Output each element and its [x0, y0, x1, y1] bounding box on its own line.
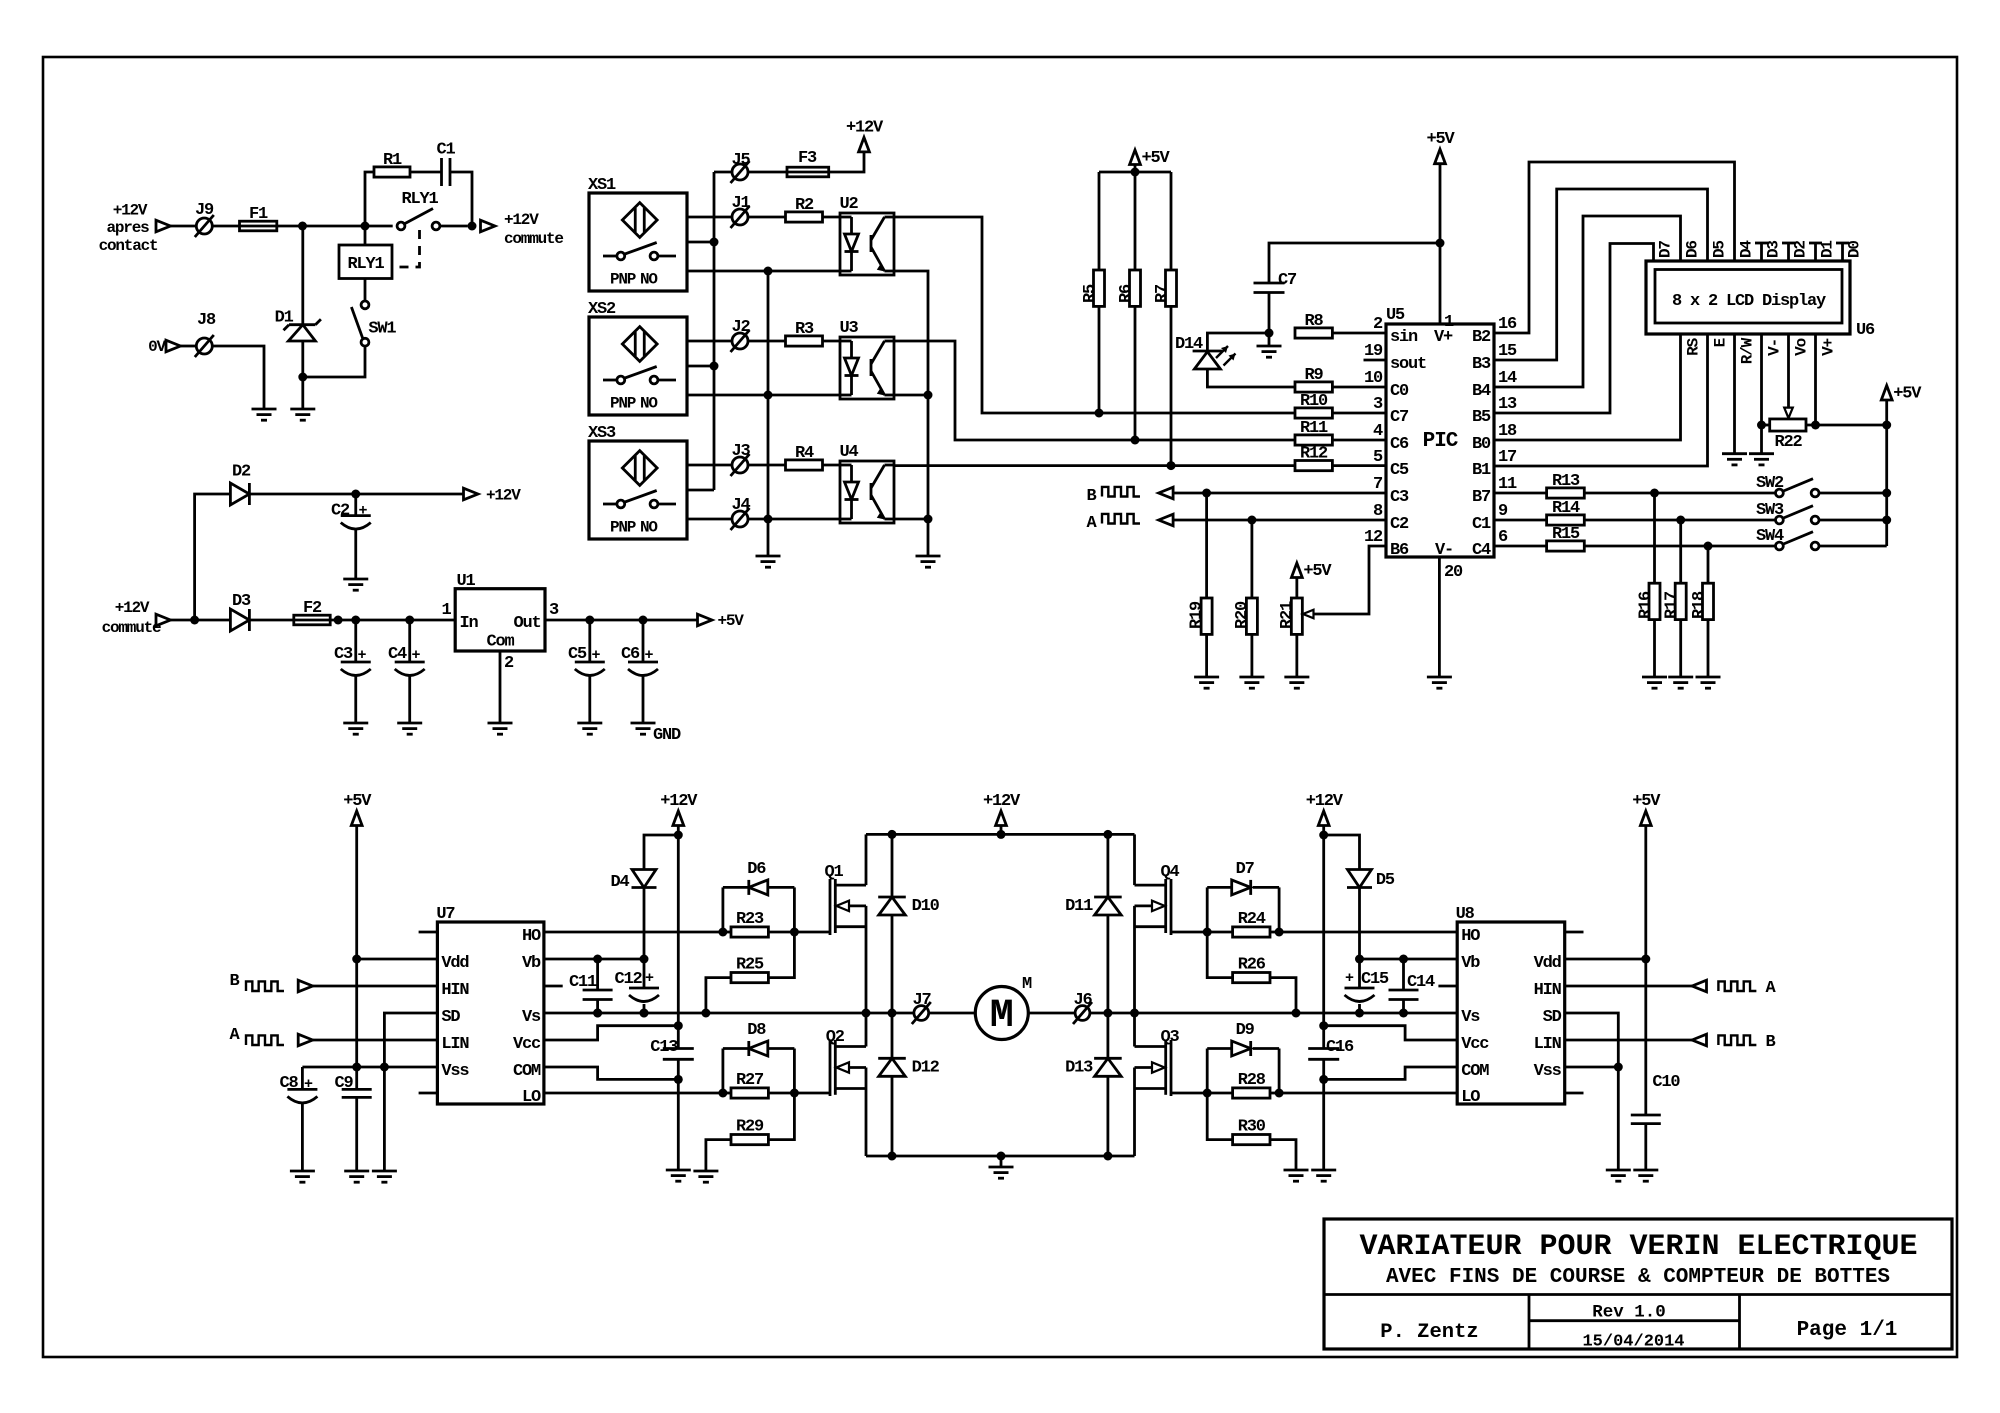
- ground: [1668, 676, 1693, 679]
- diode D12: [891, 1013, 894, 1058]
- resistor R8: [1295, 328, 1332, 338]
- U7 stub bottom-left: [419, 1092, 438, 1095]
- svg-text:C6: C6: [1390, 435, 1409, 454]
- svg-text:B0: B0: [1472, 435, 1491, 454]
- junction: [593, 1009, 602, 1018]
- net A arrow: [1692, 980, 1707, 992]
- resistor R3: [786, 336, 823, 346]
- wire coil to SW1: [364, 279, 367, 301]
- wire: [303, 347, 365, 378]
- wire U8 Vb: [1360, 958, 1458, 961]
- wire Q4 drain column: [1133, 834, 1136, 885]
- junction: [718, 1089, 727, 1098]
- svg-text:C4: C4: [1472, 541, 1491, 560]
- svg-text:M: M: [990, 994, 1014, 1039]
- svg-text:sin: sin: [1390, 328, 1418, 347]
- junction: [352, 955, 361, 964]
- junction: [764, 515, 773, 524]
- wire LCD E to PIC B1: [1494, 334, 1708, 466]
- svg-text:C14: C14: [1407, 973, 1435, 992]
- svg-text:R22: R22: [1774, 433, 1802, 452]
- junction: [674, 831, 683, 840]
- svg-text:In: In: [460, 614, 479, 633]
- wire: [823, 340, 841, 343]
- svg-text:B4: B4: [1472, 382, 1491, 401]
- resistor R11: [1295, 435, 1332, 445]
- svg-text:R6: R6: [1117, 284, 1136, 303]
- wire: [1819, 545, 1886, 548]
- junction: [1355, 1009, 1364, 1018]
- svg-text:D7: D7: [1236, 860, 1255, 879]
- fuse F1: [240, 221, 277, 231]
- diode D3: [230, 609, 249, 631]
- svg-text:V+: V+: [1820, 338, 1838, 355]
- svg-text:15: 15: [1498, 342, 1517, 361]
- junction: [640, 1009, 649, 1018]
- svg-text:C3: C3: [334, 645, 353, 664]
- wire: [748, 171, 787, 174]
- wire: [301, 341, 304, 409]
- svg-text:R27: R27: [736, 1071, 764, 1090]
- connector J8: [196, 338, 212, 354]
- svg-text:+: +: [304, 1076, 313, 1093]
- wire PIC to R15: [1494, 545, 1547, 548]
- svg-text:B: B: [229, 972, 239, 991]
- svg-text:C8: C8: [279, 1074, 298, 1093]
- svg-text:J9: J9: [195, 201, 214, 220]
- wire: [171, 619, 195, 622]
- svg-text:+5V: +5V: [718, 612, 745, 630]
- capacitor C11: [596, 959, 599, 990]
- power arrow +12V bridge: [996, 811, 1007, 826]
- svg-text:20: 20: [1444, 563, 1463, 582]
- svg-text:J5: J5: [731, 151, 750, 170]
- svg-text:19: 19: [1364, 342, 1383, 361]
- svg-text:+: +: [358, 647, 367, 664]
- U7 stub right: [544, 985, 563, 988]
- wire U7 Vss: [302, 1066, 437, 1069]
- svg-text:D3: D3: [232, 592, 251, 611]
- svg-text:R9: R9: [1304, 366, 1323, 385]
- wire U1 out: [545, 619, 698, 622]
- svg-text:Vcc: Vcc: [1461, 1035, 1489, 1054]
- wire: [440, 225, 467, 228]
- wire pullup top bar: [1099, 171, 1171, 174]
- junction: [710, 238, 719, 247]
- junction: [1650, 489, 1659, 498]
- svg-text:J4: J4: [731, 496, 750, 515]
- wire: [1332, 332, 1386, 335]
- junction: [888, 1152, 897, 1161]
- output arrow +12V commute: [481, 220, 496, 232]
- svg-text:B5: B5: [1472, 408, 1491, 427]
- svg-text:+12V: +12V: [1306, 792, 1344, 811]
- junction: [380, 1063, 389, 1072]
- capacitor C12: [643, 959, 646, 988]
- wire: [643, 887, 646, 959]
- switch SW1: [361, 301, 369, 309]
- junction: [1095, 409, 1104, 418]
- junction: [1247, 516, 1256, 525]
- svg-text:apres: apres: [106, 219, 149, 237]
- output arrow +5V: [698, 614, 713, 626]
- resistor R24: [1207, 931, 1232, 934]
- svg-text:9: 9: [1498, 502, 1508, 521]
- svg-text:R19: R19: [1188, 601, 1207, 629]
- wire: [313, 985, 438, 988]
- diode D10: [891, 834, 894, 897]
- U7 stub top-left: [419, 931, 438, 934]
- svg-text:D1: D1: [275, 309, 294, 328]
- wire sensor to J3: [687, 464, 732, 467]
- wire: [1358, 887, 1361, 959]
- wire: [748, 518, 840, 521]
- diode D4: [644, 835, 678, 870]
- svg-text:commute: commute: [504, 230, 563, 248]
- junction: [1882, 516, 1891, 525]
- svg-text:B2: B2: [1472, 328, 1491, 347]
- svg-text:D11: D11: [1065, 897, 1093, 916]
- wire LCD V+ to R22: [1814, 334, 1817, 425]
- svg-text:U2: U2: [840, 195, 859, 214]
- resistor R5: [1098, 172, 1101, 270]
- svg-text:F3: F3: [798, 149, 817, 168]
- svg-text:18: 18: [1498, 422, 1517, 441]
- resistor R15: [1547, 541, 1585, 551]
- ground: [290, 1170, 315, 1173]
- svg-text:8 x 2 LCD Display: 8 x 2 LCD Display: [1672, 292, 1826, 311]
- R21 wiper from PIC B6: [1313, 546, 1386, 614]
- wire PIC B4 to LCD D6: [1494, 216, 1681, 387]
- wire: [1332, 412, 1386, 415]
- diode D13: [1107, 1013, 1110, 1058]
- resistor R13: [1547, 488, 1585, 498]
- wire to U8 LO: [1279, 1092, 1457, 1095]
- svg-text:C1: C1: [1472, 515, 1491, 534]
- wire: [1584, 519, 1775, 522]
- svg-text:COM: COM: [513, 1062, 541, 1081]
- junction: [1203, 928, 1212, 937]
- svg-text:R/W: R/W: [1739, 337, 1757, 364]
- wire Q3 gate: [1171, 1092, 1207, 1095]
- svg-text:B: B: [1765, 1033, 1775, 1052]
- regulator U1: [455, 589, 545, 651]
- svg-text:PNP: PNP: [610, 519, 636, 537]
- svg-text:16: 16: [1498, 315, 1517, 334]
- svg-text:PNP: PNP: [610, 395, 636, 413]
- svg-text:R15: R15: [1552, 525, 1580, 544]
- svg-text:17: 17: [1498, 448, 1517, 467]
- junction: [640, 955, 649, 964]
- ground: [1284, 676, 1309, 679]
- wire U7 Vcc jog: [544, 1026, 678, 1040]
- svg-text:Vb: Vb: [1461, 954, 1480, 973]
- wire D1 column: [301, 226, 304, 325]
- svg-text:sout: sout: [1390, 355, 1426, 374]
- svg-text:B3: B3: [1472, 355, 1491, 374]
- wire PIC to R13: [1494, 492, 1547, 495]
- svg-text:5: 5: [1373, 448, 1383, 467]
- wire: [823, 464, 841, 467]
- svg-text:+: +: [645, 970, 654, 987]
- svg-text:Page 1/1: Page 1/1: [1797, 1319, 1898, 1342]
- capacitor C8: [301, 1067, 304, 1089]
- svg-text:PIC: PIC: [1423, 430, 1459, 453]
- svg-text:U5: U5: [1386, 306, 1405, 325]
- junction: [1202, 489, 1211, 498]
- capacitor C2: [354, 494, 357, 516]
- wire PIC to R14: [1494, 519, 1547, 522]
- net B arrow: [1692, 1034, 1707, 1046]
- wire U7 SD: [384, 1013, 437, 1171]
- pin 19 stub: [1364, 359, 1387, 362]
- diode D5: [1324, 835, 1360, 870]
- svg-text:+: +: [645, 647, 654, 664]
- resistor R26: [1207, 932, 1232, 978]
- junction: [674, 1075, 683, 1084]
- wire U8 HIN: [1565, 985, 1692, 988]
- wire: [1134, 165, 1137, 173]
- svg-text:1: 1: [1444, 313, 1454, 332]
- wire U2 collector to PIC C7 row: [894, 217, 1295, 413]
- fuse F2: [294, 615, 330, 625]
- wire: [829, 152, 864, 172]
- capacitor C3: [354, 620, 357, 662]
- wire Q1 drain column: [865, 834, 868, 885]
- LCD pin stub D2: [1787, 243, 1790, 261]
- junction: [764, 391, 773, 400]
- svg-text:R12: R12: [1300, 445, 1328, 464]
- svg-text:C4: C4: [388, 645, 407, 664]
- ground: [916, 555, 941, 558]
- svg-text:+12V: +12V: [983, 792, 1021, 811]
- svg-text:RLY1: RLY1: [347, 255, 384, 274]
- wire: [330, 619, 455, 622]
- wire XS1 bottom to U2 cathode: [687, 270, 840, 273]
- svg-text:C1: C1: [436, 141, 455, 160]
- junction: [1103, 1152, 1112, 1161]
- svg-text:D13: D13: [1065, 1059, 1093, 1078]
- diode D2: [230, 483, 249, 505]
- svg-text:XS3: XS3: [588, 424, 616, 443]
- svg-text:+: +: [592, 647, 601, 664]
- svg-text:Vb: Vb: [522, 954, 541, 973]
- ground: [693, 1170, 718, 1173]
- svg-text:+12V: +12V: [846, 118, 884, 137]
- potentiometer R21: [1295, 575, 1298, 598]
- wire U2 emitter: [894, 271, 928, 556]
- svg-text:Vs: Vs: [1461, 1008, 1480, 1027]
- ground: [344, 1170, 369, 1173]
- svg-text:B1: B1: [1472, 461, 1491, 480]
- svg-text:C2: C2: [331, 502, 350, 521]
- wire: [171, 225, 197, 228]
- junction: [298, 222, 307, 231]
- ground: [252, 408, 277, 411]
- wire: [1584, 545, 1775, 548]
- wire: [1584, 492, 1775, 495]
- junction: [674, 1021, 683, 1030]
- wire: [823, 216, 841, 219]
- wire Q2 drain column: [865, 1013, 868, 1047]
- svg-text:6: 6: [1498, 528, 1508, 547]
- svg-text:R16: R16: [1637, 591, 1656, 619]
- junction: [640, 1009, 649, 1018]
- diode D6 bypass: [722, 887, 725, 932]
- capacitor C6: [642, 620, 645, 662]
- ground: [1749, 452, 1774, 455]
- svg-text:SW4: SW4: [1756, 527, 1784, 546]
- svg-text:C15: C15: [1361, 970, 1389, 989]
- svg-text:+5V: +5V: [1303, 562, 1332, 581]
- svg-text:C7: C7: [1390, 408, 1409, 427]
- svg-text:RLY1: RLY1: [401, 190, 438, 209]
- capacitor C14: [1402, 959, 1405, 990]
- svg-text:+5V: +5V: [1632, 792, 1661, 811]
- wire R1 branch: [365, 172, 374, 226]
- resistor R6: [1134, 172, 1137, 270]
- svg-text:B: B: [1086, 487, 1096, 506]
- svg-text:C3: C3: [1390, 488, 1409, 507]
- svg-text:XS1: XS1: [588, 176, 616, 195]
- wire +5V bus SW: [1885, 400, 1888, 546]
- svg-text:+5V: +5V: [1893, 385, 1922, 404]
- junction: [1131, 168, 1140, 177]
- junction: [1103, 830, 1112, 839]
- wire Vs mid rail: [544, 1012, 914, 1015]
- ground: [1194, 676, 1219, 679]
- junction: [593, 1009, 602, 1018]
- resistor R27: [723, 1092, 731, 1095]
- resistor R16: [1653, 493, 1656, 583]
- resistor R10: [1295, 408, 1332, 418]
- wire U3 collector to PIC C6 row: [894, 341, 1295, 440]
- junction: [352, 1063, 361, 1072]
- svg-text:+5V: +5V: [1426, 130, 1455, 149]
- svg-text:U6: U6: [1856, 321, 1875, 340]
- wire Q2 gate: [794, 1092, 830, 1095]
- resistor R12: [1295, 461, 1332, 471]
- wire XS3 bottom J4 row: [687, 518, 732, 521]
- connector J5: [732, 164, 748, 180]
- wire U3 emitter: [894, 394, 928, 397]
- wire U7 COM jog: [544, 1067, 678, 1079]
- svg-text:Out: Out: [513, 614, 540, 633]
- svg-text:R7: R7: [1153, 284, 1172, 303]
- svg-text:C11: C11: [569, 973, 597, 992]
- optocoupler U2: [840, 213, 894, 275]
- wire U7 Vb: [544, 958, 644, 961]
- ground: [1722, 452, 1747, 455]
- wire: [181, 345, 197, 348]
- fuse F3: [787, 167, 829, 177]
- capacitor C9: [342, 1088, 372, 1091]
- svg-text:1: 1: [441, 601, 451, 620]
- junction: [405, 616, 414, 625]
- junction: [1614, 1063, 1623, 1072]
- svg-text:14: 14: [1498, 369, 1517, 388]
- wire: [1819, 492, 1886, 495]
- svg-text:C13: C13: [650, 1038, 678, 1057]
- junction: [1203, 1089, 1212, 1098]
- ground: [372, 1170, 397, 1173]
- junction: [1265, 329, 1274, 338]
- svg-text:10: 10: [1364, 369, 1383, 388]
- junction: [790, 1089, 799, 1098]
- svg-text:+12V: +12V: [660, 792, 698, 811]
- wire bottom rail: [866, 1155, 1135, 1158]
- svg-text:Com: Com: [486, 633, 514, 652]
- capacitor C10: [1631, 1114, 1661, 1117]
- junction: [1399, 955, 1408, 964]
- svg-text:HIN: HIN: [441, 981, 469, 1000]
- wire PIC B3 to LCD D5: [1494, 189, 1708, 360]
- svg-text:D6: D6: [747, 860, 766, 879]
- svg-text:M: M: [1022, 975, 1032, 994]
- junction: [701, 1009, 710, 1018]
- svg-text:+12V: +12V: [486, 487, 521, 505]
- resistor R20: [1251, 520, 1254, 598]
- wire U8 SD: [1565, 1013, 1619, 1170]
- LCD pin stub D3: [1760, 243, 1763, 261]
- output arrow +12V: [464, 488, 479, 500]
- U8 stub bottom-right: [1565, 1092, 1584, 1095]
- ground: [989, 1166, 1014, 1169]
- wire: [450, 172, 472, 226]
- connector J2: [732, 333, 748, 349]
- wire: [1332, 386, 1386, 389]
- svg-text:U8: U8: [1456, 905, 1475, 924]
- svg-text:2: 2: [1373, 315, 1383, 334]
- svg-text:contact: contact: [99, 237, 158, 255]
- power arrow +12V U7 side: [673, 811, 684, 826]
- switch SW4: [1776, 542, 1784, 550]
- connector J4: [732, 511, 748, 527]
- junction: [190, 616, 199, 625]
- svg-text:+5V: +5V: [343, 792, 372, 811]
- svg-text:C6: C6: [621, 645, 640, 664]
- input arrow +12V commute: [156, 614, 171, 626]
- svg-text:RS: RS: [1685, 337, 1703, 355]
- junction: [1319, 1021, 1328, 1030]
- svg-text:R11: R11: [1300, 419, 1328, 438]
- PIC microcontroller U5: [1386, 324, 1494, 557]
- junction: [862, 1009, 871, 1018]
- wire sensor to J1: [687, 216, 732, 219]
- svg-text:R2: R2: [795, 196, 814, 215]
- wire: [212, 346, 264, 409]
- wire J5 row: [714, 171, 732, 174]
- wire J5 feed bus: [713, 172, 716, 490]
- junction: [298, 373, 307, 382]
- wire D14 cathode: [1207, 333, 1269, 351]
- LCD pin stub D1: [1814, 243, 1817, 261]
- svg-text:V-: V-: [1766, 339, 1784, 356]
- svg-text:+: +: [1345, 970, 1354, 987]
- junction: [361, 222, 370, 231]
- wire: [748, 216, 786, 219]
- svg-text:F1: F1: [249, 205, 268, 224]
- power arrow +5V U7: [351, 811, 362, 826]
- resistor R14: [1547, 515, 1585, 525]
- wire Q2 source column: [865, 1068, 868, 1157]
- svg-text:U3: U3: [840, 319, 859, 338]
- optocoupler U4: [840, 461, 894, 523]
- wire PIC B2 to LCD D4: [1494, 162, 1735, 333]
- svg-text:12: 12: [1364, 528, 1383, 547]
- svg-text:D10: D10: [912, 897, 940, 916]
- ground: [1284, 1169, 1309, 1172]
